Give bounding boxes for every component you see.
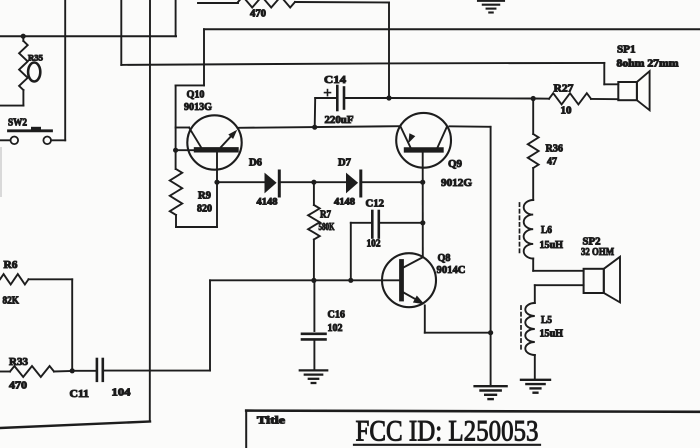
marking 0 (oval by R35) (28, 63, 40, 82)
inductor L5 (525, 303, 535, 355)
polarity + of C14 (325, 90, 331, 96)
svg-text:C11: C11 (70, 389, 90, 400)
wire right ground rail x490 (490, 127, 492, 386)
wire C12 left lead (351, 222, 373, 224)
wire R36 to L6 (532, 168, 534, 200)
svg-text:820: 820 (197, 204, 212, 215)
wire C12 drop to base line (350, 223, 352, 280)
label 820 (197, 204, 212, 215)
capacitor C11 plates (97, 359, 103, 381)
ground (below C16) (300, 370, 327, 383)
label R36 (546, 144, 564, 155)
label 104 (112, 388, 132, 399)
svg-text:9013G: 9013G (184, 101, 212, 113)
label R33 (9, 357, 28, 368)
svg-text:Q10: Q10 (187, 89, 205, 101)
label C11 (70, 389, 90, 400)
svg-text:4148: 4148 (257, 198, 278, 208)
speaker SP2 (584, 257, 620, 303)
junction Q10 base tap (173, 148, 178, 153)
ground (main, below rail) (475, 386, 507, 399)
wire Q10 lower base stub (176, 149, 197, 151)
transistor Q9 base bar (smudged) (407, 147, 442, 152)
resistor R27 (533, 93, 618, 104)
svg-text:9014C: 9014C (437, 264, 466, 276)
diode D7 (346, 171, 361, 196)
transistor Q8 collector line (404, 257, 423, 267)
wire bottom-left horizontal (0, 422, 150, 429)
svg-text:R27: R27 (554, 84, 574, 95)
svg-text:R35: R35 (28, 53, 43, 63)
svg-text:Q9: Q9 (448, 158, 462, 170)
wire Q8 base line (210, 279, 400, 281)
wire R35 bottom to left edge (0, 105, 23, 107)
wire SW2 left lead (0, 139, 11, 141)
transistor Q8 circle (382, 253, 436, 307)
wire vertical x204 (rail to Q10 box) (203, 29, 205, 85)
resistor R35 (19, 36, 28, 105)
svg-text:Title: Title (257, 416, 286, 427)
label 8ohm 27mm (617, 59, 680, 70)
svg-text:102: 102 (367, 239, 381, 250)
wire vertical x65 (SW2 to top) (64, 0, 66, 140)
svg-text:102: 102 (328, 323, 343, 334)
label 10 (R27) (561, 106, 572, 117)
svg-text:220uF: 220uF (325, 115, 354, 126)
wire Q8 emitter to ground rail (425, 332, 491, 334)
junction R7 top (311, 180, 316, 185)
junction emitter/ground-rail node (488, 330, 493, 335)
transistor Q8 base bar (399, 262, 404, 300)
label 47 (R36) (547, 157, 557, 168)
label 102 (C12) (367, 239, 381, 250)
wire C14 right lead (344, 97, 389, 99)
svg-text:47: 47 (547, 157, 557, 168)
svg-text:15uH: 15uH (540, 240, 564, 251)
underline of FCC ID (354, 444, 540, 446)
label 9013G (184, 101, 212, 113)
label 15uH (L5) (540, 329, 564, 340)
transistor Q10 collector-in line (189, 128, 202, 149)
capacitor C12 plates (372, 211, 379, 238)
transistor Q9 emitter line with arrow (401, 127, 416, 148)
label C16 (328, 310, 346, 321)
label 220uF (325, 115, 354, 126)
transistor Q10 circle (187, 115, 241, 169)
wire horizontal y36 (upper-left rail) (0, 35, 176, 37)
label 15uH (L6) (540, 240, 564, 251)
junction C14 right node (386, 95, 391, 100)
label C14 (324, 74, 347, 86)
label 82K (3, 296, 20, 307)
wire long vertical x150 (149, 0, 151, 422)
label R27 (554, 84, 574, 95)
scan artifact (left edge smudge) (0, 148, 2, 196)
wire top feed line with R470 (198, 0, 389, 8)
svg-text:L5: L5 (541, 315, 552, 326)
wire top rail y29 (204, 28, 700, 30)
label Title (257, 416, 286, 427)
wire SP2 bottom to L5 (535, 285, 584, 303)
junction Q9 base / diode row (420, 180, 425, 185)
wire vertical x210 (209, 280, 211, 370)
wire C11 right lead (103, 370, 210, 372)
transistor Q10 base bar (smudged) (197, 147, 237, 152)
svg-text:R33: R33 (9, 357, 28, 368)
wire vertical x176 top (175, 0, 177, 36)
svg-text:32 OHM: 32 OHM (581, 247, 614, 258)
label 32 OHM (581, 247, 614, 258)
transistor Q8 emitter line with arrow (404, 293, 425, 305)
label 4148 (D6) (257, 198, 278, 208)
svg-text:104: 104 (112, 388, 132, 399)
resistor R33 (0, 366, 72, 377)
wire long rail y64 (121, 63, 604, 65)
wire diode row (node to D6) (217, 181, 265, 183)
label Q9 (448, 158, 462, 170)
label L6 (541, 225, 552, 236)
wire C11 left lead (72, 370, 97, 372)
svg-text:R36: R36 (546, 144, 564, 155)
wire Q10 box top (176, 84, 204, 86)
svg-text:8ohm 27mm: 8ohm 27mm (617, 59, 680, 70)
switch SW2 bar (9, 127, 52, 131)
wire R9 bottom to emitter (176, 226, 217, 228)
ground (below L5) (521, 380, 550, 393)
wire SP1 top lead (604, 83, 618, 85)
resistor R6 (0, 274, 72, 284)
svg-text:SP1: SP1 (617, 45, 636, 56)
svg-text:470: 470 (250, 9, 266, 20)
junction C12 right node (420, 220, 425, 225)
resistor R9 (170, 169, 182, 227)
svg-text:10: 10 (561, 106, 572, 117)
switch SW2 contact circles (11, 137, 52, 145)
svg-text:Q8: Q8 (438, 252, 451, 264)
svg-text:C12: C12 (366, 199, 385, 210)
junction R7/C16 node (311, 278, 316, 283)
wire vertical x604 (to SP1 top) (603, 63, 605, 84)
wire vertical C14 left drop (314, 98, 317, 127)
svg-text:FCC ID: L250053: FCC ID: L250053 (356, 415, 539, 448)
junction C12 branch on base line (348, 278, 353, 283)
junction C14 left node (312, 125, 317, 130)
junction node R35 top (21, 34, 26, 39)
wire vertical x121 (120, 0, 122, 65)
label 470 (R33) (9, 381, 27, 392)
label 580K (319, 222, 335, 233)
label SP2 (583, 237, 601, 248)
svg-text:SW2: SW2 (8, 118, 27, 129)
svg-text:L6: L6 (541, 225, 552, 236)
wire L5 to ground (534, 355, 536, 380)
svg-text:R6: R6 (4, 260, 18, 271)
wire C12 right lead (379, 222, 423, 224)
wire Q10 collector to Q9 (238, 126, 400, 128)
wire C14 left lead (315, 97, 337, 99)
wire y98 to R27 node (389, 97, 533, 100)
capacitor C16 plates (302, 334, 326, 340)
label SP1 (617, 45, 636, 56)
label Q10 (187, 89, 205, 101)
title block border (246, 411, 700, 448)
svg-text:R9: R9 (198, 191, 211, 202)
svg-text:470: 470 (9, 381, 27, 392)
resistor value 470 (top) (250, 9, 266, 20)
wire SW2 right lead (51, 139, 65, 141)
transistor Q9 collector line (438, 127, 448, 148)
wire vertical x175.6 (Q10 left branch) (175, 85, 177, 169)
svg-text:15uH: 15uH (540, 329, 564, 340)
label 102 (C16) (328, 323, 343, 334)
core line L6 (dashed) (519, 203, 521, 254)
wire Q10 emitter bottom exit (216, 152, 218, 227)
core line L5 (dashed) (520, 306, 522, 351)
label Q8 (438, 252, 451, 264)
label D7 (338, 158, 351, 169)
svg-text:SP2: SP2 (583, 237, 601, 248)
label R6 (4, 260, 18, 271)
svg-text:4148: 4148 (334, 198, 355, 208)
wire D6 to D7 (279, 181, 346, 183)
text FCC ID: L250053 (356, 415, 539, 448)
label 4148 (D7) (334, 198, 355, 208)
wire Q9 collector out (450, 125, 491, 128)
svg-text:D6: D6 (249, 158, 262, 169)
svg-text:C14: C14 (324, 74, 347, 86)
svg-text:580K: 580K (319, 222, 335, 233)
label 9012G (441, 177, 472, 189)
label C12 (366, 199, 385, 210)
wire L6 to SP2 top (533, 259, 583, 271)
resistor R36 (528, 134, 539, 168)
wire C16 bottom lead (313, 339, 315, 370)
transistor Q10 emitter line with arrow (221, 130, 237, 147)
svg-text:82K: 82K (3, 296, 20, 307)
label D6 (249, 158, 262, 169)
label R35 (28, 53, 43, 63)
svg-text:R7: R7 (320, 210, 331, 221)
label 9014C (437, 264, 466, 276)
junction R6/R33/C11 node (70, 368, 75, 373)
svg-text:9012G: 9012G (441, 177, 472, 189)
label L5 (541, 315, 552, 326)
resistor R7 (308, 182, 320, 280)
junction R27/R36 node (531, 96, 536, 101)
diode D6 (265, 171, 280, 196)
inductor L6 (524, 200, 534, 259)
svg-text:D7: D7 (338, 158, 351, 169)
wire R36 top lead (532, 99, 534, 135)
wire Q10 upper base stub (176, 127, 189, 129)
label R9 (198, 191, 211, 202)
label R7 (320, 210, 331, 221)
capacitor C14 plates (337, 86, 344, 110)
junction Q10 emitter / D6 branch (214, 180, 219, 185)
wire Q8 emitter down (424, 306, 426, 333)
wire R6 drop (71, 279, 73, 371)
transistor Q9 circle (396, 113, 451, 168)
label SW2 (8, 118, 27, 129)
wire D7 to Q9 base node (361, 181, 423, 183)
svg-text:C16: C16 (328, 310, 346, 321)
wire C16 top lead (313, 280, 315, 331)
speaker SP1 (618, 71, 649, 110)
wire vertical drop x389 (top rail to C14 node) (388, 3, 390, 99)
ground symbol (top, floating) (478, 1, 504, 13)
wire Q9 base vertical (422, 152, 424, 256)
